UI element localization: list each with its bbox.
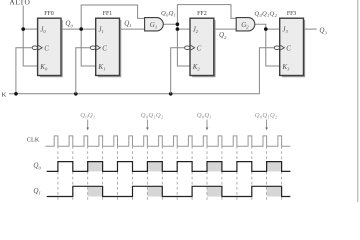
junction G1 out / over-route bbox=[176, 22, 180, 26]
wire Q0 to K1 bbox=[81, 29, 96, 66]
wire G1 output over-route to G2 top input bbox=[177, 5, 236, 25]
junction CLK/FF1 bbox=[74, 92, 78, 96]
waveform Q1 bbox=[47, 186, 291, 196]
svg-text:C: C bbox=[197, 44, 202, 52]
wire ALTO vertical to J0 and K0 bbox=[23, 6, 37, 67]
wire CLK feed to FF1 C bbox=[76, 48, 90, 94]
page border line right bbox=[357, 0, 359, 202]
junction J2/K2 bbox=[176, 27, 180, 31]
flip-flop FF2 bbox=[185, 11, 215, 77]
flip-flop FF0 bbox=[32, 11, 62, 77]
junction CLK/FF2 bbox=[169, 92, 173, 96]
svg-text:Q0Q1Q2: Q0Q1Q2 bbox=[141, 112, 164, 120]
flip-flop FF1 bbox=[90, 11, 120, 77]
dashed grid at clock falling edges bbox=[58, 146, 282, 200]
waveform Q0 bbox=[47, 162, 291, 172]
wire CLK feed to FF2 C bbox=[171, 48, 185, 94]
wire CLK bus bbox=[9, 48, 274, 94]
svg-text:C: C bbox=[286, 44, 291, 52]
flip-flop FF3 bbox=[274, 11, 304, 77]
svg-text:FF3: FF3 bbox=[287, 11, 297, 17]
svg-text:ALTO: ALTO bbox=[9, 0, 30, 6]
junction CLK/FF0 bbox=[14, 92, 18, 96]
wire G1 output to J2 bbox=[163, 24, 190, 29]
annotation arrow 3 bbox=[206, 120, 209, 131]
svg-text:C: C bbox=[44, 44, 49, 52]
shaded cells Q0 row bbox=[88, 162, 282, 172]
waveform CLK bbox=[45, 136, 290, 146]
svg-text:K: K bbox=[2, 92, 7, 99]
svg-text:FF2: FF2 bbox=[197, 11, 207, 17]
junction J3/K3 bbox=[264, 27, 268, 31]
node Q0 junction bbox=[79, 27, 83, 31]
svg-text:Q0Q1Q2: Q0Q1Q2 bbox=[255, 112, 278, 120]
wire G2 output to J3 bbox=[255, 24, 280, 29]
wire G1 output to K2 bbox=[177, 29, 190, 66]
wire Q3 output stub bbox=[304, 28, 317, 30]
wire J0 stub bbox=[23, 28, 37, 30]
node junction ALTO/J0 bbox=[21, 27, 25, 31]
gate G2 (AND) bbox=[236, 18, 255, 31]
gate G1 (AND) bbox=[145, 18, 164, 31]
shaded cells Q1 row bbox=[88, 186, 282, 196]
wire G2 output to K3 bbox=[266, 29, 280, 66]
svg-text:FF1: FF1 bbox=[103, 11, 113, 17]
svg-text:FF0: FF0 bbox=[44, 11, 54, 17]
wire Q1 from FF1 to G1 lower input bbox=[120, 28, 145, 30]
svg-text:CLK: CLK bbox=[27, 138, 40, 144]
annotation arrow 4 bbox=[265, 120, 268, 131]
wire Q0 from FF0 to J1 bbox=[61, 28, 96, 30]
wire Q0 over-route to G1 top input bbox=[81, 5, 144, 29]
svg-text:C: C bbox=[102, 44, 107, 52]
annotation arrow 1 bbox=[86, 120, 89, 131]
wire Q2 from FF2 to G2 lower input bbox=[214, 28, 236, 30]
svg-text:Q0Q1Q2: Q0Q1Q2 bbox=[254, 10, 277, 18]
annotation arrow 2 bbox=[146, 120, 149, 131]
wire CLK feed to FF0 C bbox=[16, 48, 32, 94]
